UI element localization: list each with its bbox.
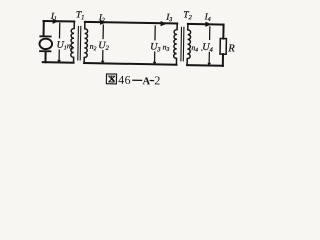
svg-text:U1: U1 <box>56 40 66 52</box>
wire loop1 top <box>44 20 75 23</box>
svg-text:T1: T1 <box>76 10 85 21</box>
caption glyph tu (drawn CJK) <box>106 74 116 84</box>
resistor R box <box>220 39 226 55</box>
wire loop1 left vertical (source top lead) <box>43 21 45 36</box>
svg-text:I4: I4 <box>204 11 211 23</box>
voltage arrow U1 lower segment <box>58 50 60 61</box>
voltage arrowhead U1 <box>57 60 61 63</box>
voltage arrow U2 upper segment <box>102 25 104 38</box>
current arrow I2 <box>100 20 106 25</box>
caption em dash <box>133 79 142 81</box>
source U1 top terminal bar <box>40 35 50 37</box>
voltage arrow U2 lower segment <box>102 51 104 62</box>
transformer T1 core <box>78 26 81 60</box>
source U1 bottom terminal bar <box>40 50 50 52</box>
svg-text:T2: T2 <box>183 10 192 21</box>
stray dot <box>201 49 202 50</box>
transformer T1 primary winding <box>71 21 75 62</box>
wire source bottom lead <box>44 52 46 62</box>
voltage arrowhead U2 <box>101 61 105 64</box>
voltage arrowhead U3 <box>153 62 157 65</box>
svg-text:I3: I3 <box>165 12 172 24</box>
svg-text:U4: U4 <box>202 42 213 54</box>
voltage arrow U1 upper segment <box>58 23 60 38</box>
svg-text:n2: n2 <box>90 42 97 52</box>
voltage arrow U4 lower segment <box>208 52 210 63</box>
voltage arrow U3 upper segment <box>154 26 156 40</box>
current arrow I1 <box>53 19 59 24</box>
svg-text:R: R <box>227 43 235 54</box>
voltage arrowhead U4 <box>207 63 211 66</box>
wire loop3 bottom <box>187 64 223 67</box>
transformer T2 core <box>181 27 184 61</box>
transformer T2 secondary winding <box>187 24 191 65</box>
current arrow I3 <box>161 21 167 26</box>
caption hyphen <box>150 80 153 82</box>
wire loop3 right vertical upper <box>222 25 224 39</box>
wire loop3 top <box>188 23 224 26</box>
svg-text:U2: U2 <box>98 40 109 52</box>
svg-text:A: A <box>143 76 151 87</box>
svg-text:46: 46 <box>118 73 131 87</box>
wire loop3 right vertical lower <box>222 54 224 66</box>
svg-text:n3: n3 <box>163 43 170 53</box>
voltage arrow U3 lower segment <box>154 52 156 63</box>
current arrow I4 <box>205 22 211 27</box>
source U1 body circle <box>39 39 52 50</box>
transformer T1 secondary winding <box>84 22 88 63</box>
svg-text:2: 2 <box>154 73 160 87</box>
wire loop1 bottom <box>43 61 74 64</box>
voltage arrow U4 upper segment <box>209 27 211 39</box>
svg-text:I2: I2 <box>98 12 105 24</box>
wire loop2 top <box>85 22 177 24</box>
svg-text:U3: U3 <box>150 42 161 54</box>
svg-text:I1: I1 <box>50 11 57 23</box>
wire loop2 bottom <box>84 63 176 65</box>
svg-text:n4: n4 <box>191 43 198 53</box>
transformer T2 primary winding <box>174 24 178 65</box>
